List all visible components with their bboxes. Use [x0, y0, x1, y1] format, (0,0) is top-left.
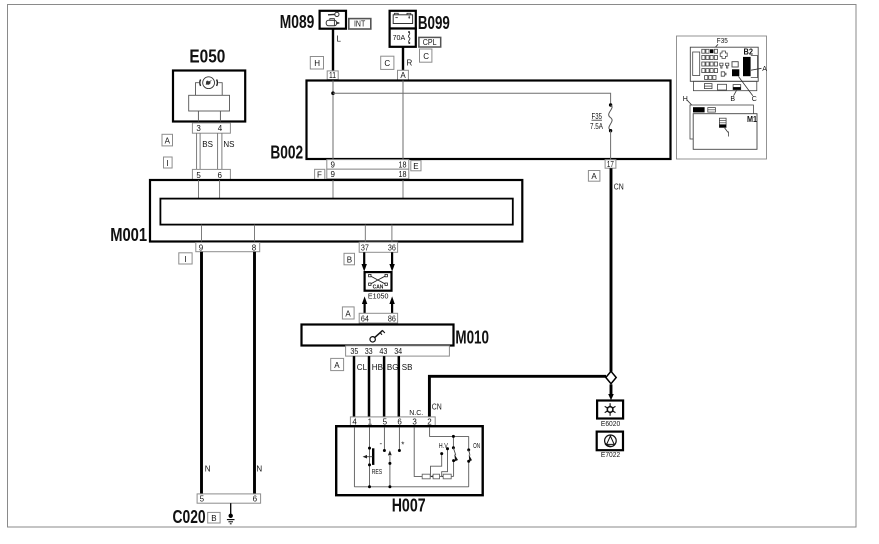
svg-text:CL: CL [357, 363, 368, 372]
svg-text:70A: 70A [393, 35, 406, 42]
connector letter box A (near pin 17) [588, 171, 600, 182]
wire B099 pin R to B002 pin A [402, 47, 404, 71]
svg-text:RES: RES [372, 469, 383, 476]
relay shapes in B2 [720, 51, 729, 76]
inner block of M001 [160, 199, 512, 225]
H007 junction dots [368, 435, 470, 488]
twin wire NS pin4 to pin6 [217, 133, 219, 180]
inset frame [677, 36, 767, 159]
svg-text:I: I [167, 159, 169, 168]
wire stubs into M001 top [198, 180, 200, 199]
svg-text:R: R [407, 58, 413, 67]
wire stubs out of M001 bottom [201, 225, 203, 242]
svg-text:C: C [384, 59, 390, 68]
leader F35 to fuse [712, 44, 718, 51]
svg-text:-: - [380, 439, 383, 448]
svg-text:18: 18 [399, 170, 407, 179]
connector letter box B [344, 253, 355, 264]
H007 internal circuit [354, 427, 468, 486]
connector letter box H [310, 57, 323, 70]
connector letter box I [179, 253, 192, 264]
wire pin1 through RES [369, 427, 371, 486]
svg-text:E: E [413, 162, 418, 171]
H.V. switch arm [453, 448, 458, 462]
svg-text:17: 17 [607, 160, 614, 169]
ON switch arm [469, 450, 472, 462]
svg-text:B: B [211, 514, 216, 523]
RES arrow [363, 455, 373, 459]
ground symbol C020 [227, 503, 235, 524]
wire fuse to pin 17 [610, 131, 612, 160]
connector letter box A [162, 134, 173, 146]
wire HB pin33 to H007 pin1 [368, 356, 371, 417]
connector strip pins 35,33,43,34 of M010 [346, 346, 450, 356]
svg-text:F35: F35 [592, 112, 603, 121]
svg-text:CN: CN [614, 183, 624, 192]
svg-text:B099: B099 [418, 13, 450, 33]
connector A black block [743, 57, 751, 76]
arrow 36 down to E1050 [389, 252, 394, 271]
arrow 37 down to E1050 [362, 252, 367, 271]
svg-text:86: 86 [388, 314, 396, 323]
connector strip F pins 9,18 [327, 169, 409, 179]
svg-text:E7022: E7022 [601, 452, 620, 459]
svg-text:C: C [423, 52, 429, 61]
svg-text:A: A [400, 71, 406, 80]
bracket right of A [751, 56, 758, 78]
svg-text:BG: BG [387, 363, 399, 372]
wire CL pin35 to H007 pin4 [353, 356, 356, 417]
junction unit B002 box [307, 81, 671, 160]
striped connector [708, 108, 716, 113]
fuse rows of B2 [702, 49, 718, 79]
svg-text:H: H [683, 96, 688, 103]
compressor E7022 box [597, 432, 623, 451]
leader C [739, 77, 753, 96]
svg-text:5: 5 [196, 171, 201, 180]
pin 11 of B002 [327, 71, 338, 80]
connector squares in B2 [732, 62, 738, 67]
svg-text:8: 8 [252, 243, 257, 252]
CAN node E1050 box [365, 272, 392, 291]
wire pin A to pin 18 internal [402, 81, 404, 181]
svg-text:7.5A: 7.5A [590, 122, 604, 131]
connector strip pins 64,86 of M010 [359, 313, 397, 323]
switch arm pin5 [389, 456, 391, 463]
connector letter box A [331, 358, 344, 370]
wire pin3 to resistors [414, 427, 422, 476]
connector stack I [719, 118, 726, 127]
svg-text:9: 9 [199, 243, 204, 252]
connector strip pins 3,4 of E050 [192, 123, 230, 133]
resistor links [430, 475, 433, 477]
M1 back panel [690, 105, 753, 139]
connector strip E pins 9,18 [327, 160, 409, 170]
wire pin6 [398, 427, 400, 450]
switch arm arrow (pin5) [388, 450, 392, 455]
battery B099 box [390, 11, 416, 29]
svg-text:11: 11 [329, 71, 336, 80]
diamond junction node [606, 371, 616, 383]
wire junction to fuse F35 [333, 93, 611, 105]
svg-text:CPL: CPL [423, 38, 437, 47]
svg-text:SB: SB [402, 363, 413, 372]
node junction on pin11 line [331, 91, 335, 95]
wire pin11 to pin 9 internal [332, 81, 334, 181]
svg-text:E050: E050 [189, 47, 225, 67]
svg-text:NS: NS [223, 140, 234, 149]
connector C black square [732, 69, 739, 76]
leader B [734, 90, 737, 96]
svg-text:64: 64 [361, 314, 369, 323]
svg-text:BS: BS [202, 140, 213, 149]
connector letter box A [342, 307, 354, 319]
svg-text:C020: C020 [173, 507, 206, 527]
svg-text:A: A [591, 172, 597, 181]
wire H007 pin2 riser to diamond [429, 376, 606, 417]
svg-text:A: A [165, 137, 171, 146]
bottom rail [354, 486, 468, 488]
connector letter box E [411, 161, 421, 171]
wire pin2 top distribution [430, 427, 469, 436]
connector letter box F [315, 169, 325, 179]
svg-text:43: 43 [379, 347, 387, 356]
svg-text:*: * [401, 441, 404, 450]
connector letter box B [208, 512, 220, 523]
svg-text:36: 36 [388, 244, 396, 253]
resistor block 2 [433, 474, 439, 479]
arrow diamond to E6020 [608, 384, 614, 400]
M1 front panel [693, 114, 757, 150]
key unit M010 box [302, 325, 454, 346]
selector stub 1 [431, 454, 442, 477]
connector strip pins 9,8 of M001 [196, 243, 260, 253]
svg-text:E1050: E1050 [368, 293, 389, 300]
svg-text:CAN: CAN [373, 285, 384, 291]
svg-text:H007: H007 [392, 495, 426, 515]
climate control E6020 box [597, 401, 623, 419]
H.V. output to resistor row [453, 461, 455, 477]
svg-text:34: 34 [394, 347, 402, 356]
svg-text:M089: M089 [280, 12, 315, 32]
svg-text:N: N [256, 464, 262, 473]
svg-text:N.C.: N.C. [409, 410, 423, 417]
sensor E050 box [173, 71, 245, 122]
svg-text:M1: M1 [747, 115, 757, 124]
svg-text:18: 18 [399, 161, 407, 170]
svg-text:M010: M010 [455, 328, 489, 348]
svg-text:A: A [762, 66, 767, 73]
connector letter box C (left) [381, 56, 394, 69]
blower switch H007 box [336, 426, 483, 495]
fuse F35 7.5A [590, 103, 612, 132]
svg-text:A: A [345, 310, 351, 319]
svg-text:I: I [184, 255, 186, 264]
connector strip pins 4,1,5,6,3,2 of H007 [350, 417, 435, 427]
svg-text:37: 37 [361, 244, 369, 253]
svg-text:B: B [730, 96, 735, 103]
connector H black [693, 107, 705, 112]
svg-text:5: 5 [200, 495, 205, 504]
fuse panel B2 [690, 47, 758, 81]
ON switch branch [468, 436, 470, 450]
svg-text:9: 9 [331, 170, 336, 179]
label box CPL [419, 37, 441, 47]
wire M089 pin L to B002 pin 11 [332, 29, 334, 71]
svg-text:L: L [337, 35, 342, 44]
wire SB pin34 to H007 pin6 [398, 356, 401, 417]
wire pin17 down to diamond node [610, 168, 613, 371]
pin 17 of B002 [605, 160, 616, 169]
connector strip pins 5,6 into M001 [192, 169, 230, 179]
leader I [725, 128, 728, 132]
svg-text:6: 6 [218, 171, 223, 180]
connector strip pins 37,36 of M001 [359, 242, 397, 252]
svg-text:B002: B002 [270, 143, 303, 163]
svg-text:33: 33 [365, 347, 373, 356]
svg-text:9: 9 [331, 161, 336, 170]
svg-text:F35: F35 [717, 38, 728, 45]
svg-text:H.V.: H.V. [439, 443, 449, 450]
svg-text:N: N [205, 464, 211, 473]
svg-text:B: B [347, 256, 352, 265]
resistor block 3 [443, 474, 451, 479]
svg-text:HB: HB [372, 363, 383, 372]
arrow 86 up to E1050 [389, 296, 394, 313]
twin wire BS pin3 to pin5 [196, 133, 198, 180]
svg-text:F: F [317, 171, 322, 180]
wire N pin9 to C020 pin5 [200, 252, 203, 494]
wire BG pin43 to H007 pin5 [383, 356, 386, 417]
pin A of B002 [398, 70, 409, 80]
svg-text:4: 4 [218, 124, 223, 133]
label box INT [349, 19, 371, 29]
svg-text:A: A [334, 361, 340, 370]
svg-text:B2: B2 [744, 47, 754, 56]
svg-text:C: C [752, 96, 757, 103]
wire pin4 to rail [353, 427, 355, 486]
arrow 64 up to E1050 [362, 296, 367, 313]
ignition switch M089 box [320, 11, 346, 29]
leader H [687, 100, 694, 108]
svg-text:35: 35 [350, 347, 358, 356]
RES heater element [372, 448, 374, 465]
svg-text:INT: INT [354, 19, 365, 28]
connector B half black [733, 87, 741, 90]
wire pin5 [383, 427, 385, 450]
resistor link arrow 1 [430, 475, 434, 478]
fuse 70A box of B099 [390, 29, 416, 47]
resistor link arrow 2 [441, 475, 445, 478]
svg-text:E6020: E6020 [601, 421, 620, 428]
svg-text:6: 6 [253, 495, 258, 504]
connector letter box C (right) [420, 49, 432, 62]
svg-text:M001: M001 [110, 225, 147, 245]
body computer M001 box [150, 180, 522, 242]
connector strip pins 5,6 of C020 [197, 494, 261, 504]
apron under B2 [693, 81, 756, 90]
connector letter box I [164, 157, 173, 168]
resistor block 1 [422, 474, 430, 479]
fuse F35 highlighted [710, 49, 713, 53]
selector stub 2 [442, 449, 448, 477]
H.V. switch feed [452, 436, 454, 447]
leader A [751, 68, 762, 70]
svg-text:CN: CN [432, 402, 442, 411]
svg-text:3: 3 [196, 124, 201, 133]
svg-text:H: H [314, 59, 320, 68]
svg-text:ON: ON [473, 443, 480, 450]
wire N pin8 to C020 pin6 [253, 252, 256, 494]
